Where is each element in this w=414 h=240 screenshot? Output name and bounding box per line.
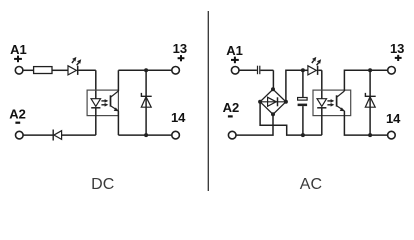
wire to LED (AC)	[303, 69, 308, 71]
node bridge right	[284, 100, 288, 104]
wire top rail to terminal 13 (AC)	[370, 69, 388, 71]
bridge internal diode	[260, 97, 286, 106]
phototransistor Q1 (inside U1)	[111, 91, 119, 111]
wire D2 to corner	[62, 134, 96, 136]
node bridge top	[271, 87, 275, 91]
wire collector up to top rail	[117, 70, 119, 91]
plus mark at A1 (DC)	[14, 56, 22, 63]
wire collector up to top rail (AC)	[344, 70, 372, 91]
opto light arrows (U1)	[101, 99, 108, 107]
capacitor C2 (electrolytic)	[298, 98, 308, 107]
terminal 13 (DC)	[172, 67, 180, 75]
wire LED to corner	[78, 69, 95, 71]
wire opto LED cathode down (AC)	[321, 108, 323, 135]
plus mark at 13 (AC)	[395, 55, 402, 61]
optocoupler U2 box (AC)	[313, 90, 351, 116]
svg-text:A1: A1	[10, 42, 27, 57]
wire rail to terminal 14 (AC)	[370, 134, 388, 136]
wire A1 to C1	[239, 69, 257, 71]
node junction top (DC)	[144, 68, 148, 72]
svg-text:DC: DC	[91, 176, 114, 193]
diode D2 (reverse protection, DC)	[53, 130, 61, 141]
terminal 14 (DC)	[172, 131, 180, 139]
bridge rectifier B1 diamond	[260, 89, 286, 114]
svg-text:13: 13	[173, 41, 187, 56]
node bridge bottom	[271, 112, 275, 116]
plus mark at A1 (AC)	[231, 57, 239, 64]
wire corner down into optocoupler	[95, 70, 97, 98]
wire corner down into optocoupler (AC)	[321, 70, 323, 98]
minus mark at A2 (DC)	[15, 122, 20, 124]
wire collector rail to terminal 13	[118, 69, 171, 71]
svg-text:A2: A2	[9, 107, 26, 122]
node junction bottom (DC)	[144, 133, 148, 137]
LED D1 (input indicator)	[68, 57, 81, 75]
node junction C2 bottom	[301, 133, 305, 137]
opto light arrows (U2)	[327, 99, 334, 107]
opto LED (inside U1)	[91, 99, 101, 108]
wire LED cathode down to bottom rail	[95, 108, 97, 135]
zener diode D5 (AC)	[365, 93, 375, 107]
wire corner down to bridge	[272, 70, 274, 89]
plus mark at 13 (DC)	[178, 55, 185, 61]
wire R1 to LED	[52, 69, 68, 71]
terminal A1 (AC)	[231, 67, 239, 75]
svg-text:14: 14	[171, 110, 186, 125]
terminal A2 (AC)	[228, 131, 236, 139]
zener diode D3 (DC)	[141, 93, 151, 107]
phototransistor Q2 (inside U2)	[337, 91, 345, 111]
zener diode D5 wire (AC)	[369, 70, 371, 135]
wire emitter rail to terminal 14	[118, 134, 172, 136]
terminal 13 (AC)	[388, 67, 396, 75]
LED D4 (input indicator, AC)	[308, 57, 321, 75]
resistor R1	[34, 67, 52, 74]
opto LED (inside U2)	[317, 99, 327, 108]
wire A2 to bridge bottom	[236, 114, 273, 135]
wire LED to corner (AC)	[318, 69, 322, 71]
wire bridge left to bottom rail	[260, 102, 322, 135]
node junction top (AC)	[368, 68, 372, 72]
node junction C2 top	[301, 68, 305, 72]
zener diode D3 wire (DC)	[145, 70, 147, 135]
capacitor C2 wire bottom	[302, 106, 304, 135]
terminal 14 (AC)	[388, 131, 396, 139]
svg-text:A1: A1	[226, 43, 243, 58]
wire A1 to R1	[23, 69, 33, 71]
terminal A2 (DC)	[15, 131, 23, 139]
wire C1 to corner	[260, 69, 273, 71]
wire emitter down	[117, 111, 119, 135]
node bridge left	[258, 100, 262, 104]
svg-text:A2: A2	[223, 100, 240, 115]
svg-text:13: 13	[390, 41, 404, 56]
minus mark at A2 (AC)	[228, 115, 233, 117]
wire emitter down to rail (AC)	[344, 111, 370, 135]
svg-text:14: 14	[386, 111, 401, 126]
wire A2 to D2	[23, 134, 53, 136]
terminal A1 (DC)	[15, 67, 23, 75]
wire bridge right up to top rail	[286, 70, 303, 102]
capacitor C2 wire top	[302, 70, 304, 97]
node junction bottom (AC)	[368, 133, 372, 137]
divider line	[207, 11, 209, 191]
optocoupler U1 box (DC)	[87, 90, 118, 116]
capacitor C1 (series)	[258, 66, 260, 75]
svg-text:AC: AC	[300, 176, 322, 193]
